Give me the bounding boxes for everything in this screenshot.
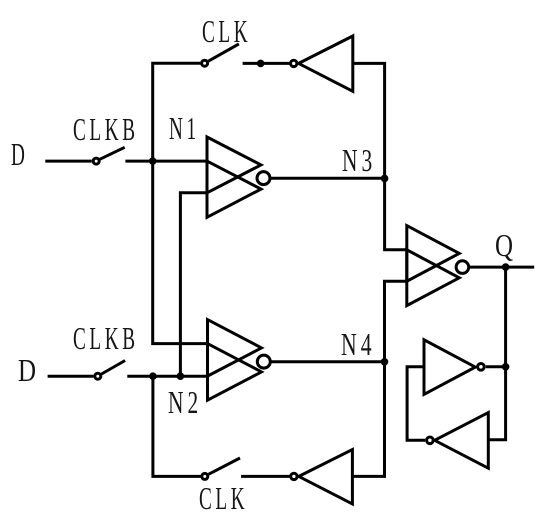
wire Q spine down to keeper U5 input — [488, 267, 505, 440]
inverter U2 (bottom CLK buffer, points left) — [291, 450, 353, 504]
label CLK (bottom) — [199, 482, 248, 514]
switch S2 CLK (top) — [202, 44, 239, 66]
wire Q output — [469, 266, 534, 269]
wire D input to switch (upper) — [45, 160, 91, 163]
label D (lower) — [18, 354, 41, 386]
wire switch throw stub to U1 — [243, 62, 290, 65]
wire U4 output to Q spine — [486, 365, 506, 368]
node N3 junction — [381, 175, 389, 183]
switch S4 CLK (bottom) — [202, 458, 240, 479]
label N3 — [342, 144, 376, 176]
wire lower right spine: Q-cell lower input to bottom row — [352, 281, 406, 476]
inverter U1 (top CLK buffer, points left) — [291, 36, 353, 91]
label Q — [495, 229, 518, 261]
label N4 — [341, 328, 376, 360]
wire stub to U2 — [241, 475, 290, 478]
wire right spine U1 to Q-cell upper input through N3 — [353, 63, 407, 249]
wire feedback U5 output to U4 input — [407, 367, 425, 441]
node D2-drop junction — [149, 372, 157, 380]
wire D input to switch (lower) — [48, 375, 94, 378]
wire top CLK row + left spine + N2 upper input — [153, 63, 208, 343]
label CLKB (lower) — [73, 322, 139, 354]
inverter U4 (keeper forward, points right) — [424, 340, 484, 395]
wire switch to N2 lower input — [127, 375, 207, 378]
node spine2-D2 junction — [177, 372, 185, 380]
switch S1 CLKB (upper) — [93, 147, 125, 164]
node N4 junction — [381, 358, 389, 366]
wire switch to N1 upper input — [125, 160, 207, 163]
label N1 — [169, 112, 200, 144]
label D (upper) — [11, 138, 28, 170]
node stub contact — [257, 60, 265, 68]
label CLK (top) — [202, 15, 251, 47]
tri-state inverter cell N2 — [208, 320, 271, 401]
wire drop to bottom CLK row — [153, 376, 201, 476]
switch S3 CLKB (lower) — [95, 361, 125, 380]
wire N1 lower input + spine2 down to D2 row — [180, 193, 207, 376]
label CLKB (upper) — [73, 113, 139, 145]
tri-state inverter cell U3 (output stage) — [407, 226, 469, 306]
wire N4 (N2 output) — [271, 360, 385, 363]
label N2 — [168, 386, 202, 418]
wire N3 (N1 output) — [271, 177, 385, 180]
tri-state inverter cell N1 — [207, 137, 270, 217]
inverter U5 (keeper back, points left) — [427, 413, 489, 469]
node Q junction — [502, 263, 510, 271]
node D-N1 junction — [149, 157, 157, 165]
node keeper output junction — [502, 363, 510, 371]
